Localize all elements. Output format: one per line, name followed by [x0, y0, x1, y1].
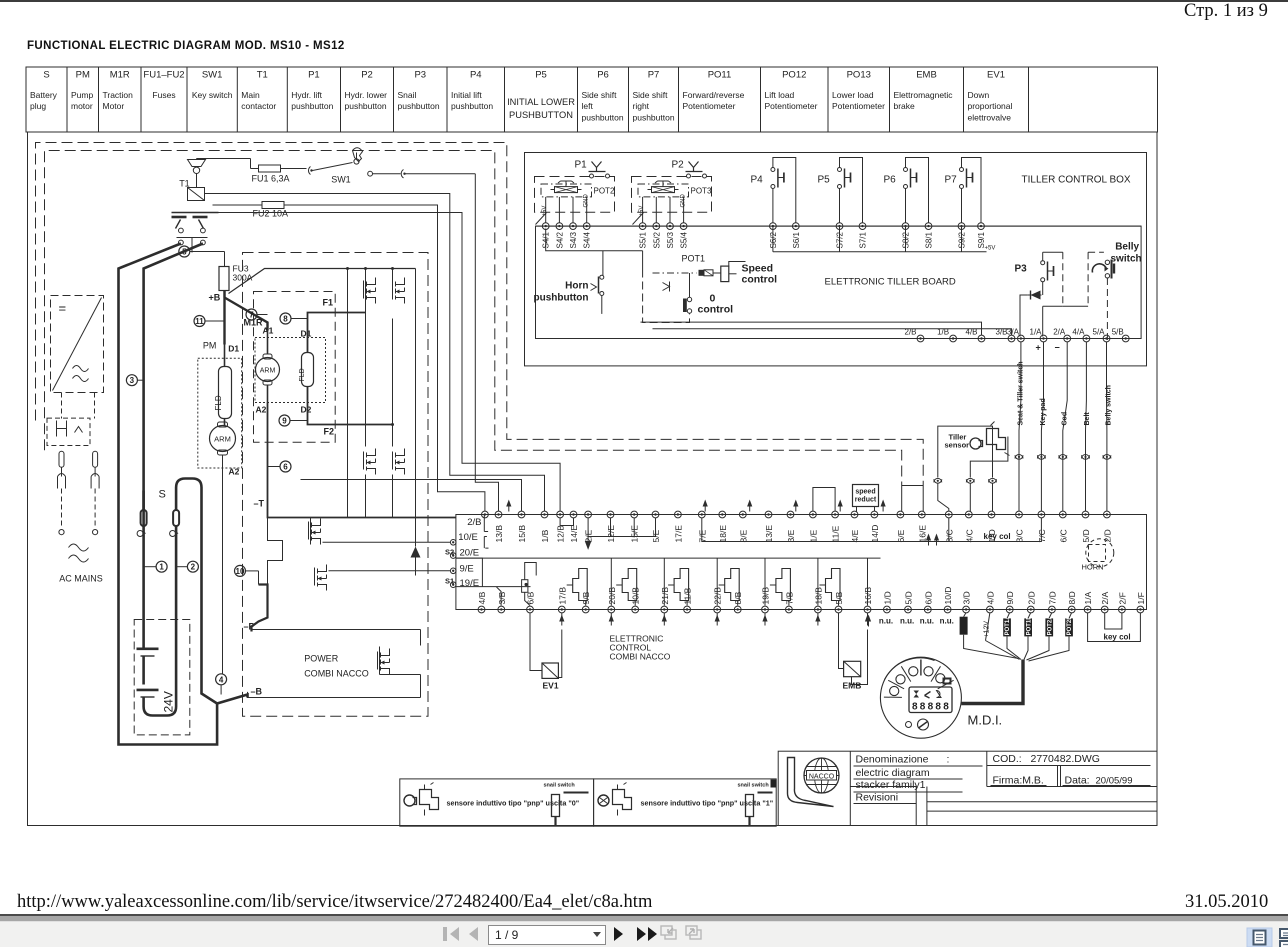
svg-text:FU2 10A: FU2 10A — [253, 209, 289, 219]
svg-text:13/E: 13/E — [764, 525, 774, 543]
wire: T1 coil right and down — [205, 194, 545, 512]
tag POT1A — [1003, 618, 1011, 636]
svg-text:8/E: 8/E — [738, 529, 748, 542]
svg-text:11/E: 11/E — [831, 525, 841, 542]
potentiometer POT2 dashed box — [535, 177, 615, 213]
svg-text:pushbutton: pushbutton — [633, 113, 675, 123]
board terminal 2/B — [917, 335, 924, 342]
svg-text::: : — [947, 754, 950, 766]
svg-text:2/A: 2/A — [1100, 591, 1110, 604]
svg-text:POT2: POT2 — [594, 187, 615, 196]
svg-text:P2: P2 — [361, 70, 373, 81]
svg-text:6/C: 6/C — [1058, 529, 1068, 542]
M1R armature — [256, 358, 280, 382]
svg-text:P7: P7 — [648, 70, 660, 81]
fuse FU3 300A — [224, 252, 226, 267]
terminal 7/E — [698, 511, 705, 518]
terminal 1/D — [988, 511, 995, 518]
transistor above 686.6 — [674, 569, 689, 601]
svg-text:P3: P3 — [1015, 264, 1028, 275]
sensor glyph 2 — [598, 795, 609, 806]
svg-text:F2: F2 — [324, 427, 335, 437]
svg-text:+: + — [1036, 343, 1041, 353]
M1R dashed box — [254, 292, 336, 443]
terminal 15/B — [518, 511, 525, 518]
svg-text:2/A: 2/A — [1053, 328, 1066, 337]
svg-text:S4/4: S4/4 — [583, 231, 592, 248]
svg-text:Key switch: Key switch — [192, 90, 233, 100]
svg-text:elettrovalve: elettrovalve — [968, 113, 1012, 123]
svg-text:P6: P6 — [597, 70, 609, 81]
svg-text:12/B: 12/B — [556, 525, 566, 543]
terminal 14/E — [570, 511, 577, 518]
svg-text:GND: GND — [681, 194, 687, 208]
svg-text:HORN: HORN — [1082, 563, 1104, 572]
internal jog 12/B-14/E — [560, 518, 573, 526]
svg-text:stacker family1: stacker family1 — [856, 779, 926, 791]
terminal 6/C — [1059, 511, 1066, 518]
terminal 14/D — [871, 511, 878, 518]
board terminal 3/A — [1018, 335, 1025, 342]
svg-text:POT3: POT3 — [691, 187, 712, 196]
svg-text:8: 8 — [920, 702, 926, 713]
svg-text:3/D: 3/D — [962, 591, 972, 604]
svg-text:control: control — [742, 274, 778, 286]
terminal 4/C — [965, 511, 972, 518]
svg-text:COD.:: COD.: — [993, 753, 1022, 765]
wire S5/3 — [669, 197, 671, 223]
MOSFET bridge buses — [347, 269, 349, 518]
switch component 2 — [746, 795, 754, 817]
board terminal 1/A — [1040, 335, 1047, 342]
svg-text:24V: 24V — [162, 691, 176, 712]
svg-text:right: right — [633, 101, 650, 111]
svg-text:P2: P2 — [672, 160, 685, 171]
svg-text:+5V: +5V — [985, 246, 996, 252]
svg-text:pushbutton: pushbutton — [398, 101, 440, 111]
terminal 2/B — [482, 511, 489, 518]
svg-text:COMBI NACCO: COMBI NACCO — [304, 669, 369, 679]
terminal 7/C — [1038, 511, 1045, 518]
node 11 — [194, 316, 205, 327]
MOSFET single lower — [315, 565, 327, 591]
svg-text:8/D: 8/D — [1067, 591, 1077, 604]
svg-text:Belly switch: Belly switch — [1105, 385, 1112, 425]
terminal 3/C — [1016, 511, 1023, 518]
svg-text:1/A: 1/A — [1083, 591, 1093, 604]
svg-text:EV1: EV1 — [543, 681, 559, 691]
sense wire Belly switch — [1106, 342, 1108, 512]
terminal 17/E — [675, 511, 682, 518]
terminal 5/B (bottom row) — [835, 606, 842, 613]
PM armature ARM — [210, 426, 236, 452]
svg-text:P5: P5 — [818, 175, 831, 186]
potentiometer POT3 dashed box — [632, 177, 712, 213]
svg-text:Revisioni: Revisioni — [856, 792, 899, 804]
svg-text:16/E: 16/E — [917, 525, 927, 543]
svg-text:FU1–FU2: FU1–FU2 — [143, 70, 184, 81]
terminal 1/E — [810, 511, 817, 518]
svg-text:10: 10 — [236, 567, 245, 576]
sense wire Key pad — [1041, 342, 1043, 512]
inner compartment line — [456, 557, 881, 559]
svg-text:Traction: Traction — [103, 90, 134, 100]
svg-text:TILLER CONTROL BOX: TILLER CONTROL BOX — [1022, 175, 1131, 186]
terminal 3/E — [787, 511, 794, 518]
wire T1 coil top to FU1 — [197, 158, 251, 160]
svg-text:F1: F1 — [323, 298, 334, 308]
svg-text:6/E: 6/E — [896, 529, 906, 542]
svg-text:Lift load: Lift load — [765, 90, 795, 100]
svg-text:9/E: 9/E — [460, 564, 474, 575]
svg-text:POT1A: POT1A — [1005, 615, 1011, 636]
svg-text:19/E: 19/E — [460, 578, 480, 589]
MDI wire tags — [960, 617, 968, 635]
svg-text:S5/3: S5/3 — [666, 231, 675, 248]
node 1 — [156, 561, 167, 572]
M1R A2 wire down to -T — [267, 403, 269, 509]
svg-text:9/D: 9/D — [1005, 591, 1015, 604]
switch component 1 — [552, 795, 560, 817]
terminal 15/E — [631, 511, 638, 518]
terminal 11/B (bottom row) — [684, 606, 691, 613]
svg-text:left: left — [582, 101, 594, 111]
svg-text:2: 2 — [191, 563, 196, 572]
terminal 6/D (bottom row) — [924, 606, 931, 613]
svg-text:POT2A: POT2A — [1047, 615, 1053, 636]
svg-text:20/05/99: 20/05/99 — [1096, 776, 1133, 787]
board terminal 5/B — [1122, 335, 1129, 342]
svg-text:Initial lift: Initial lift — [451, 90, 482, 100]
terminal 2/F (bottom row) — [1119, 606, 1126, 613]
EMB brake — [839, 613, 844, 669]
svg-text:EMB: EMB — [916, 70, 937, 81]
svg-text:S5/1: S5/1 — [639, 231, 648, 248]
svg-text:switch: switch — [1111, 254, 1142, 265]
svg-text:brake: brake — [894, 101, 916, 111]
svg-text:POT1B: POT1B — [1026, 615, 1032, 636]
svg-text:pushbutton: pushbutton — [451, 101, 493, 111]
wire: FU2 line right and down — [292, 205, 485, 512]
svg-text:Battery: Battery — [30, 90, 58, 100]
svg-text:Belt: Belt — [1084, 412, 1091, 426]
svg-text:n.u.: n.u. — [879, 617, 893, 626]
svg-text:Main: Main — [241, 90, 260, 100]
svg-text:Belly: Belly — [1115, 242, 1139, 253]
svg-text:POT1: POT1 — [682, 254, 706, 264]
transistor above 788.4 — [776, 569, 791, 601]
svg-text:1/E: 1/E — [808, 529, 818, 542]
svg-text:Seat & Tiller switch: Seat & Tiller switch — [1018, 361, 1025, 425]
svg-text:2/F: 2/F — [1117, 592, 1127, 604]
svg-text:SW1: SW1 — [331, 175, 351, 185]
terminal 11/E — [832, 511, 839, 518]
svg-text:COMBI NACCO: COMBI NACCO — [610, 652, 671, 662]
terminal 16/E — [918, 511, 925, 518]
svg-text:GND: GND — [584, 194, 590, 208]
svg-text:+B: +B — [209, 293, 221, 303]
svg-text:PO11: PO11 — [708, 70, 732, 81]
tiller board internal wires to 4/B,3/B terminals — [641, 322, 982, 335]
node 7 — [246, 309, 257, 320]
fuse FU2 10A — [254, 204, 262, 206]
wire S5/1 — [642, 197, 644, 223]
internal bus 7/E right — [702, 518, 949, 542]
MOSFET Q bottom-left — [364, 449, 376, 475]
svg-text:6: 6 — [283, 463, 288, 472]
resistor near 6/B — [522, 580, 528, 593]
svg-text:POWER: POWER — [304, 654, 339, 664]
svg-text:–B: –B — [251, 687, 263, 697]
svg-text:2770482.DWG: 2770482.DWG — [1031, 753, 1100, 765]
svg-text:proportional: proportional — [968, 101, 1013, 111]
svg-text:key col: key col — [1104, 633, 1131, 642]
terminal 3/D (bottom row) — [963, 606, 970, 613]
NACCO logo — [788, 758, 834, 807]
terminal 18/E — [719, 511, 726, 518]
terminal 12/B — [557, 511, 564, 518]
svg-text:Potentiometer: Potentiometer — [832, 101, 885, 111]
svg-text:ELETTRONIC TILLER BOARD: ELETTRONIC TILLER BOARD — [825, 277, 956, 288]
fuse FU1 6,3A — [251, 168, 259, 170]
horn feed rail — [546, 229, 643, 251]
tiller sensor assembly — [938, 426, 993, 477]
terminal 1/D (bottom row) — [884, 606, 891, 613]
svg-text:8: 8 — [943, 702, 949, 713]
key col brackets lower right — [1088, 613, 1141, 642]
svg-text:5/D: 5/D — [904, 591, 914, 604]
terminal 4/D (bottom row) — [987, 606, 994, 613]
svg-text:Potentiometer: Potentiometer — [683, 101, 736, 111]
terminal 10/B (bottom row) — [632, 606, 639, 613]
svg-text:pushbutton: pushbutton — [534, 293, 589, 304]
svg-text:Motor: Motor — [103, 101, 125, 111]
svg-text:plug: plug — [30, 101, 46, 111]
transistor above 585.2 — [573, 569, 588, 601]
terminal 5/E — [652, 511, 659, 518]
HORN dashed circle — [1086, 539, 1114, 567]
AC mains leads — [61, 489, 63, 529]
up arrows above top row — [508, 502, 510, 512]
wire S4/1 — [545, 197, 547, 223]
dashed boundary inner — [45, 151, 902, 486]
MOSFET single mid-left — [309, 519, 321, 545]
svg-text:P3: P3 — [414, 70, 426, 81]
left sub-box 9/E,19/E — [456, 558, 531, 587]
tiller board bottom terminals — [536, 338, 1142, 340]
terminal 10/D (bottom row) — [944, 606, 951, 613]
transistor above 634.7 — [622, 569, 637, 601]
svg-text:P6: P6 — [884, 175, 897, 186]
node 6 — [280, 461, 291, 472]
svg-text:P4: P4 — [751, 175, 764, 186]
speed reduct box — [853, 485, 879, 507]
svg-text:S4/2: S4/2 — [555, 231, 564, 248]
bottom sensor box 1 — [400, 779, 594, 826]
svg-text:8: 8 — [283, 315, 288, 324]
svg-text:n.u.: n.u. — [900, 617, 914, 626]
svg-text:electric diagram: electric diagram — [856, 767, 930, 779]
wire from left section to 15/B — [301, 480, 522, 512]
terminal 8/C — [945, 511, 952, 518]
thick bus +B — [225, 298, 268, 331]
24V battery dashed box — [134, 620, 190, 735]
svg-text:AC MAINS: AC MAINS — [59, 574, 103, 584]
thick cable: T1 left contact down to bottom loop — [119, 244, 248, 745]
svg-text:7/D: 7/D — [1047, 591, 1057, 604]
svg-text:Fuses: Fuses — [152, 90, 175, 100]
M1R dotted box — [255, 338, 326, 403]
wire: key line down right side — [475, 174, 498, 512]
svg-text:4: 4 — [219, 675, 224, 684]
node 9 — [279, 415, 290, 426]
bracket over 1/E,11/E — [813, 488, 835, 512]
board terminal 1/B — [950, 335, 957, 342]
svg-text:3/E: 3/E — [786, 529, 796, 542]
terminal 7/B (bottom row) — [786, 606, 793, 613]
svg-text:15/B: 15/B — [517, 525, 527, 543]
terminal 1/A (bottom row) — [1084, 606, 1091, 613]
wire from SW1 top circle up — [356, 153, 358, 159]
P3 diode — [1042, 282, 1044, 295]
PM A2 wire down — [222, 471, 224, 674]
svg-text:Lower load: Lower load — [832, 90, 874, 100]
svg-text:17/E: 17/E — [673, 525, 683, 543]
svg-text:S: S — [159, 489, 166, 501]
MOSFET Q top-right — [393, 278, 405, 304]
thick cable: T1 right contact to battery + — [144, 244, 203, 641]
+B node — [223, 291, 226, 298]
svg-text:3/B: 3/B — [497, 591, 507, 604]
svg-text:Potentiometer: Potentiometer — [765, 101, 818, 111]
S plug right wire up — [176, 479, 217, 704]
MOSFET power lower right — [378, 649, 390, 675]
3/B internal L-wire — [497, 587, 502, 606]
node 8 — [280, 313, 291, 324]
tag POT1B — [1024, 618, 1032, 636]
internal bus 2/E..5/E — [588, 518, 655, 537]
svg-text:1: 1 — [159, 563, 164, 572]
svg-text:snail switch: snail switch — [544, 783, 576, 789]
svg-text:D2: D2 — [301, 405, 312, 415]
tag POT2B — [1065, 618, 1073, 636]
svg-text:4/E: 4/E — [850, 529, 860, 542]
svg-text:2/D: 2/D — [1026, 591, 1036, 604]
title block — [778, 751, 1157, 825]
MOSFET Q bottom-right — [393, 449, 405, 475]
dashed boundary outer (battery compartment) — [36, 143, 924, 486]
svg-text:4/B: 4/B — [477, 591, 487, 604]
svg-text:Side shift: Side shift — [633, 90, 669, 100]
svg-text:FLD: FLD — [214, 395, 223, 410]
terminal 9/D (bottom row) — [1006, 606, 1013, 613]
dashed link S5/1 to 0 control — [643, 270, 690, 323]
svg-text:EV1: EV1 — [987, 70, 1005, 81]
power section dashed box — [243, 253, 429, 717]
wire S5/2 — [655, 197, 657, 223]
svg-text:P4: P4 — [470, 70, 482, 81]
left plug wire up — [142, 491, 145, 511]
belly switch dashed leads — [1062, 252, 1064, 306]
board terminal 4/A — [1083, 335, 1090, 342]
board terminal 5/A — [1103, 335, 1110, 342]
svg-text:8: 8 — [928, 702, 934, 713]
svg-text:3/C: 3/C — [1015, 529, 1025, 542]
svg-text:S5/4: S5/4 — [680, 231, 689, 248]
terminal 17/B (bottom row) — [558, 606, 565, 613]
terminal 2/E — [585, 511, 592, 518]
svg-text:Pump: Pump — [71, 90, 93, 100]
svg-text:Horn: Horn — [565, 281, 588, 292]
svg-text:NACCO: NACCO — [809, 773, 835, 780]
charger plug connector — [47, 418, 90, 445]
board terminal 4/B — [978, 335, 985, 342]
terminal 2/D — [1104, 511, 1111, 518]
terminal 6/B (bottom row) — [527, 606, 534, 613]
svg-text:FLD: FLD — [299, 368, 306, 381]
node 10 — [235, 565, 246, 576]
svg-text:17/B: 17/B — [557, 587, 567, 605]
terminal 16/B (bottom row) — [864, 606, 871, 613]
MDI mode tab — [943, 678, 952, 685]
terminal 1/B — [541, 511, 548, 518]
terminal 18/B (bottom row) — [815, 606, 822, 613]
svg-text:pushbutton: pushbutton — [345, 101, 387, 111]
transistor above 737.2 — [725, 569, 740, 601]
svg-text:Forward/reverse: Forward/reverse — [683, 90, 745, 100]
PM field FLD — [219, 367, 232, 419]
svg-text:1/B: 1/B — [540, 529, 550, 542]
column dividers — [610, 558, 612, 605]
terminal 8/E — [739, 511, 746, 518]
svg-text:S8/1: S8/1 — [925, 231, 934, 248]
wire: contact aux down — [208, 213, 561, 512]
svg-text:4/A: 4/A — [1072, 328, 1085, 337]
svg-text:8: 8 — [935, 702, 941, 713]
battery loop wire — [142, 641, 145, 649]
plug pins — [59, 451, 64, 467]
terminal 20/B (bottom row) — [608, 606, 615, 613]
terminal 8/B (bottom row) — [734, 606, 741, 613]
svg-text:PUSHBUTTON: PUSHBUTTON — [509, 110, 573, 120]
svg-text:M1R: M1R — [110, 70, 130, 81]
tag POT2A — [1045, 618, 1053, 636]
svg-text:=: = — [59, 301, 67, 316]
svg-text:P1: P1 — [308, 70, 320, 81]
svg-text:−: − — [1055, 343, 1060, 353]
svg-text:S7/1: S7/1 — [859, 231, 868, 248]
diode arrow — [411, 547, 421, 558]
transistor above 838 — [826, 569, 841, 601]
terminal 1/F (bottom row) — [1137, 606, 1144, 613]
svg-text:reduct: reduct — [855, 497, 877, 504]
terminal row line on board top — [536, 225, 1142, 227]
svg-text:ARM: ARM — [214, 435, 231, 444]
svg-text:n.u.: n.u. — [940, 617, 954, 626]
terminal 4/B (bottom row) — [478, 606, 485, 613]
svg-text:Down: Down — [968, 90, 990, 100]
svg-text:contactor: contactor — [241, 101, 276, 111]
svg-text:pushbutton: pushbutton — [291, 101, 333, 111]
MDI fan cable — [964, 613, 1019, 659]
2/B internal wire with jog — [484, 515, 488, 549]
svg-text:14/D: 14/D — [870, 525, 880, 543]
svg-text:Hydr. lift: Hydr. lift — [291, 90, 322, 100]
svg-text:8: 8 — [912, 702, 918, 713]
svg-text:PM: PM — [203, 341, 217, 351]
svg-text:Elettromagnetic: Elettromagnetic — [894, 90, 954, 100]
revision rows — [915, 787, 917, 826]
